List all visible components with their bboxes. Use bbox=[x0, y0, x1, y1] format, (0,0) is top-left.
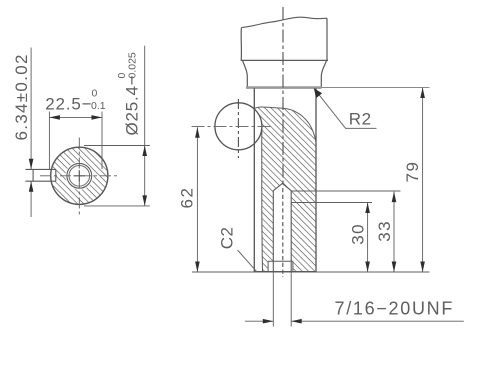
svg-text:7/16−20UNF: 7/16−20UNF bbox=[335, 299, 455, 319]
vertical centerline bbox=[78, 138, 80, 216]
shaft centerline bbox=[282, 7, 284, 184]
top block outline (broken end) bbox=[241, 17, 327, 27]
svg-text:6.34±0.02: 6.34±0.02 bbox=[12, 53, 31, 140]
freehand break line left bbox=[261, 126, 264, 271]
dim 30 bbox=[291, 202, 372, 204]
dim 22.5 0/-0.1 bbox=[49, 112, 102, 170]
svg-text:Ø25.4−: Ø25.4− bbox=[123, 74, 142, 135]
shoulder extension line for 79 bbox=[322, 87, 430, 89]
freehand break line top bbox=[254, 107, 316, 142]
horizontal centerline bbox=[40, 175, 120, 177]
hatched body circle bbox=[51, 147, 108, 204]
chamfer circle white core bbox=[65, 162, 93, 190]
ball hole circle white interior bbox=[215, 103, 262, 150]
threaded hole outline bbox=[273, 184, 291, 191]
svg-text:0.1: 0.1 bbox=[91, 100, 106, 112]
shaft edges bbox=[253, 88, 255, 272]
dim 79 bbox=[422, 88, 424, 273]
C2 leader bbox=[238, 250, 257, 272]
shoulder thick line bbox=[246, 86, 322, 89]
svg-text:0: 0 bbox=[92, 88, 98, 100]
svg-text:R2: R2 bbox=[349, 110, 372, 129]
center cross bbox=[74, 170, 85, 181]
threaded hole white interior bbox=[268, 184, 293, 273]
dim 33 bbox=[291, 190, 400, 192]
dim Ø25.4 0/-0.025 bbox=[84, 146, 150, 206]
svg-text:62: 62 bbox=[178, 187, 197, 209]
dim 7/16-20UNF bbox=[273, 273, 291, 327]
chamfer at hole bottom bbox=[268, 261, 293, 272]
section hatch region bbox=[254, 107, 316, 272]
bottom face of part bbox=[254, 271, 316, 273]
chamfer circle outline bbox=[67, 163, 92, 188]
thread hole circle outline bbox=[69, 166, 90, 187]
keyway slot white bbox=[33, 169, 56, 181]
svg-text:0.025: 0.025 bbox=[127, 52, 139, 78]
R2 leader bbox=[314, 88, 377, 128]
ball centerlines bbox=[237, 99, 239, 158]
ball hole circle outline bbox=[215, 103, 262, 150]
slot outline bbox=[25, 169, 55, 181]
outer circle outline bbox=[51, 147, 108, 204]
svg-text:79: 79 bbox=[403, 161, 422, 183]
svg-text:C2: C2 bbox=[218, 227, 237, 250]
dim 6.34±0.02 bbox=[30, 48, 32, 218]
dim 62 bbox=[196, 127, 198, 272]
svg-text:33: 33 bbox=[375, 220, 394, 242]
svg-text:22.5−: 22.5− bbox=[45, 95, 92, 114]
svg-text:30: 30 bbox=[349, 223, 368, 245]
bottom extension line bbox=[192, 271, 430, 273]
middle band bbox=[243, 60, 248, 87]
